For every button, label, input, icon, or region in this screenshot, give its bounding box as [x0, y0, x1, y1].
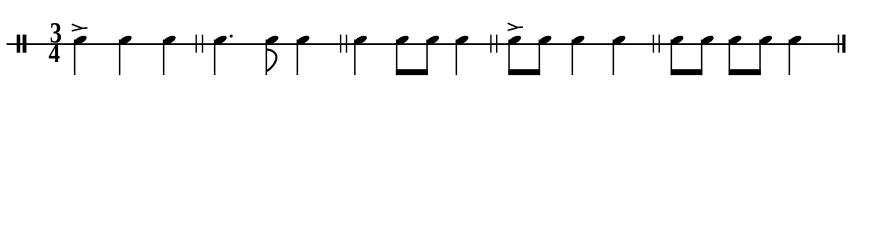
accent on measure-4 first note	[508, 23, 523, 30]
double barline 4	[653, 35, 660, 53]
quarter note q3 stem x=162.9	[162, 34, 177, 75]
eighth note with flag	[264, 34, 279, 75]
quarter note q6 stem x=354.1	[353, 34, 368, 75]
opening heavy double barline	[17, 35, 27, 53]
augmentation dot for dotted quarter	[230, 35, 233, 38]
time signature 3/4	[49, 17, 62, 68]
beamed eighth pair b2	[507, 34, 553, 75]
double barline 3	[490, 35, 497, 53]
quarter note q8 stem x=571.6	[570, 34, 585, 75]
accent on first note	[72, 24, 88, 31]
svg-text:4: 4	[49, 38, 61, 68]
double barline 2	[340, 35, 347, 53]
beamed eighth pair b3	[669, 34, 715, 75]
beamed eighth pair b1	[395, 34, 441, 75]
quarter note q2 stem x=118.9	[118, 34, 133, 75]
staff line	[7, 43, 846, 45]
quarter note q9 stem x=612.6	[611, 34, 626, 75]
beamed eighth pair b4	[727, 34, 773, 75]
quarter note q1 stem x=73.9	[73, 34, 88, 75]
quarter note q4 stem x=213.9	[213, 34, 228, 75]
quarter note q5 stem x=296.6	[295, 34, 310, 75]
double barline 1	[196, 35, 204, 53]
quarter note q7 stem x=455.6	[454, 34, 469, 75]
final barline (thin + thick)	[838, 35, 846, 53]
quarter note q10 stem x=788.6	[787, 34, 802, 75]
